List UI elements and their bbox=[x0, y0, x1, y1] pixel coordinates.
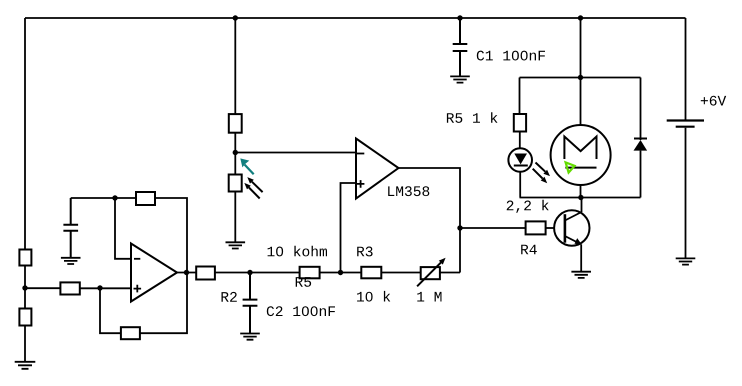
label R2 bbox=[222, 292, 237, 302]
ground below battery bbox=[676, 258, 696, 264]
op-amp U2 plus sign bbox=[357, 180, 365, 188]
resistor R5 1k bbox=[514, 114, 526, 132]
resistor R3 bbox=[361, 267, 381, 279]
node top rail photo branch bbox=[233, 15, 238, 20]
diode D2 bbox=[640, 78, 642, 141]
resistor R2 bbox=[196, 267, 215, 280]
wire U2 output down bbox=[399, 168, 461, 273]
resistor R4 bbox=[526, 221, 546, 234]
wire plus node down to bottom feedback bbox=[100, 288, 121, 333]
node C2 bbox=[247, 270, 252, 275]
potentiometer 1M bbox=[421, 267, 440, 279]
wire divider to ground bbox=[24, 326, 26, 362]
op-amp U1 minus sign bbox=[134, 258, 140, 260]
label R5b bbox=[296, 277, 311, 287]
resistor photo branch top bbox=[229, 114, 242, 133]
ground below C1 bbox=[450, 76, 470, 82]
transistor Q1 bbox=[554, 210, 589, 245]
wire motor top bar bbox=[520, 77, 641, 79]
label 10 k bbox=[357, 291, 390, 302]
label R3 bbox=[357, 247, 372, 257]
wire top feedback to resistor bbox=[115, 197, 136, 199]
wire R3 to pot bbox=[381, 272, 421, 274]
wire R2 to C2 node bbox=[215, 272, 300, 274]
resistor R7 bottom of left divider bbox=[19, 309, 31, 326]
wire top feedback right side bbox=[155, 198, 187, 273]
wire pot to U2 output branch bbox=[440, 272, 460, 274]
node collector junction bbox=[578, 195, 583, 200]
ground below divider bbox=[15, 362, 36, 369]
wire R5 branch bbox=[519, 78, 521, 115]
node motor bar top bbox=[578, 75, 583, 80]
LED D1 bbox=[508, 148, 532, 172]
label R4 bbox=[521, 245, 537, 255]
photoresistor LDR bbox=[229, 175, 242, 192]
node motor branch top rail bbox=[578, 15, 583, 20]
green cursor triangle bbox=[566, 162, 575, 172]
capacitor C3 bbox=[63, 198, 78, 258]
label C2 bbox=[267, 306, 335, 316]
ground below capacitor C3 bbox=[61, 258, 81, 264]
arrow LED light 1 bbox=[536, 163, 546, 172]
wire motor top lead bbox=[580, 78, 582, 126]
wire emitter down bbox=[580, 245, 582, 272]
resistor R5b 10 kohm bbox=[300, 267, 320, 279]
node plus input bbox=[97, 285, 102, 290]
arrow LED light 2 bbox=[533, 169, 543, 179]
potentiometer 1M wiper arrow bbox=[417, 262, 441, 286]
motor M1 bbox=[551, 125, 611, 185]
battery +6V bbox=[685, 18, 687, 120]
wire top feedback left to cap bbox=[71, 197, 115, 199]
arrow light onto LDR 1 bbox=[252, 182, 263, 192]
node U2 plus tap bbox=[338, 270, 343, 275]
arrow light onto LDR 2 bbox=[249, 188, 260, 199]
op-amp U2 LM358 bbox=[356, 139, 399, 199]
node U1 output bbox=[184, 270, 189, 275]
node divider tap bbox=[22, 285, 27, 290]
node top feedback bbox=[112, 195, 117, 200]
op-amp U2 minus sign bbox=[357, 153, 364, 155]
wire LDR to ground bbox=[234, 192, 236, 243]
wire U2 minus input from LDR node bbox=[235, 152, 356, 154]
label 2,2 k bbox=[507, 200, 549, 213]
wire minus input bbox=[115, 198, 131, 259]
wire resistor to LDR node bbox=[234, 133, 236, 175]
op-amp U1 bbox=[131, 244, 177, 302]
ground below transistor bbox=[571, 272, 591, 278]
wire motor bottom bar bbox=[520, 197, 641, 199]
op-amp U1 plus sign bbox=[134, 285, 142, 293]
node LDR tap bbox=[233, 150, 238, 155]
label +6V bbox=[701, 96, 726, 106]
wire R5 to LED bbox=[519, 132, 521, 149]
arrow teal wiper bbox=[240, 158, 253, 174]
wire divider middle bbox=[24, 266, 26, 309]
capacitor C1 bbox=[453, 18, 468, 76]
node collector branch bbox=[457, 225, 462, 230]
label LM358 bbox=[388, 186, 429, 196]
ground below C2 bbox=[240, 334, 260, 340]
wire left rail down bbox=[24, 18, 26, 250]
wire motor bottom lead bbox=[580, 185, 582, 198]
resistor bottom feedback bbox=[121, 327, 140, 339]
wire motor branch from top rail bbox=[580, 18, 582, 78]
resistor top feedback bbox=[136, 192, 155, 205]
label R5 1 k bbox=[447, 112, 498, 123]
capacitor C2 bbox=[243, 273, 258, 334]
wire U1 output bbox=[177, 272, 196, 274]
ground below LDR bbox=[226, 242, 246, 248]
wire R4 to base bbox=[546, 227, 555, 229]
wire top rail bbox=[25, 17, 686, 19]
label 10 kohm bbox=[268, 246, 327, 257]
node C1 top rail bbox=[457, 15, 462, 20]
wire U2 plus vertical bbox=[341, 183, 357, 273]
wire photo branch from top rail bbox=[234, 18, 236, 114]
label C1 bbox=[477, 51, 545, 61]
label 1 M bbox=[417, 292, 441, 302]
wire R5b to R3 bbox=[320, 272, 361, 274]
wire divider tap to input resistor bbox=[25, 287, 60, 289]
wire to plus node bbox=[80, 287, 131, 289]
wire bottom feedback to output bbox=[140, 273, 187, 334]
resistor input left bbox=[60, 282, 79, 294]
resistor R6 top of left divider bbox=[19, 250, 31, 266]
wire base from node bbox=[460, 227, 526, 229]
wire LED to bottom bar bbox=[519, 172, 521, 198]
